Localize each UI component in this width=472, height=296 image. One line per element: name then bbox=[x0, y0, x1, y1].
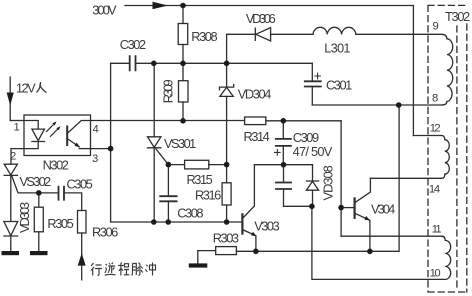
wire pin 2 lead bbox=[11, 149, 24, 165]
transformer core line bbox=[456, 26, 458, 290]
wire L301 to pin 9 bbox=[356, 33, 442, 35]
svg-text:8: 8 bbox=[432, 93, 438, 105]
svg-text:11: 11 bbox=[432, 224, 442, 236]
inductor L301 bbox=[313, 27, 356, 34]
ground VD303 bbox=[2, 251, 20, 255]
svg-text:VD306: VD306 bbox=[246, 11, 276, 26]
transformer T302 dashed box bbox=[428, 5, 467, 292]
optocoupler N302 box bbox=[24, 115, 91, 156]
node pin 8 wire junction bbox=[396, 102, 402, 108]
svg-text:14: 14 bbox=[429, 184, 440, 196]
resistor R309 bbox=[182, 63, 184, 80]
svg-text:3: 3 bbox=[92, 153, 98, 165]
svg-text:R314: R314 bbox=[244, 129, 270, 144]
capacitor C309 bbox=[282, 121, 284, 165]
svg-text:300V: 300V bbox=[92, 3, 117, 18]
winding pins 12-14 bbox=[442, 136, 450, 179]
svg-text:C302: C302 bbox=[120, 37, 146, 52]
svg-text:C308: C308 bbox=[177, 206, 203, 221]
node VS302 gate / R305 top bbox=[36, 190, 42, 196]
wire pin 3 row bbox=[91, 148, 111, 150]
svg-text:R303: R303 bbox=[213, 231, 239, 246]
node VD306 / VD304 branch bbox=[224, 61, 230, 67]
resistor R305 bbox=[38, 193, 40, 207]
phototransistor of N302 bbox=[66, 127, 68, 146]
wire pin 11 lead bbox=[341, 235, 442, 237]
node V303 emitter / R303 bbox=[253, 249, 259, 255]
LED light arrows bbox=[47, 124, 59, 137]
node R314 / C309 top bbox=[281, 118, 287, 124]
svg-text:R306: R306 bbox=[92, 225, 118, 240]
svg-text:10: 10 bbox=[430, 268, 441, 280]
svg-text:T302: T302 bbox=[445, 9, 470, 24]
capacitor C308 bbox=[167, 165, 169, 222]
transistor V303 bbox=[241, 214, 243, 233]
node R309 bottom on pin-4 wire bbox=[180, 118, 186, 124]
svg-text:9: 9 bbox=[433, 21, 439, 33]
wire pin 4 row bbox=[91, 120, 245, 122]
node R308 / R309 junction bbox=[180, 61, 186, 67]
node C302 / VS301 anode bbox=[151, 61, 157, 67]
svg-text:R316: R316 bbox=[195, 188, 221, 203]
resistor R315 bbox=[185, 160, 209, 169]
winding pins 9-8 bbox=[442, 34, 453, 105]
node 300V arrow bbox=[153, 2, 169, 10]
svg-text:4: 4 bbox=[93, 124, 99, 136]
ground R303 bbox=[197, 251, 199, 264]
diode VD306 bbox=[227, 28, 256, 40]
wire pin 12 lead bbox=[413, 135, 441, 137]
wire VD308 node to pin 10 bbox=[312, 206, 442, 279]
zener VD304 bbox=[226, 63, 228, 87]
wire 12V input arrow bbox=[9, 77, 11, 121]
thyristor VS302 bbox=[4, 164, 17, 175]
capacitor C302 bbox=[130, 56, 136, 70]
wire VD306 branch vertical bbox=[226, 34, 228, 63]
label 入 (CJK drawn) bbox=[37, 82, 47, 93]
svg-text:2: 2 bbox=[10, 151, 16, 163]
svg-text:L301: L301 bbox=[324, 41, 350, 56]
svg-text:C309: C309 bbox=[293, 130, 319, 145]
wire opto-C302 column bbox=[110, 63, 112, 222]
node VS301 gate / C308 top bbox=[166, 162, 172, 168]
wire pin 14 row bbox=[370, 177, 441, 179]
wire emitter row bbox=[256, 105, 399, 251]
svg-text:R315: R315 bbox=[187, 172, 213, 187]
svg-text:C305: C305 bbox=[67, 177, 93, 192]
svg-text:VD304: VD304 bbox=[238, 87, 272, 102]
node C308 bottom bbox=[165, 219, 171, 225]
svg-text:12V: 12V bbox=[16, 81, 36, 96]
resistor R316 bbox=[226, 165, 228, 183]
svg-text:R308: R308 bbox=[191, 29, 217, 44]
wire right-side vertical 300V to pin12 bbox=[412, 6, 414, 136]
capacitor C305 bbox=[59, 187, 65, 200]
node C309 bottom / V303 collector bbox=[281, 162, 287, 168]
wire C302 left segment bbox=[111, 62, 130, 64]
wire C302 to C301 corner bbox=[136, 62, 313, 64]
diode VD308 bbox=[306, 165, 318, 181]
wire V303 collector row bbox=[254, 164, 312, 166]
svg-text:1: 1 bbox=[14, 122, 20, 134]
capacitor below C309 bbox=[284, 165, 312, 207]
transistor V304 bbox=[354, 198, 356, 217]
node 300V rail / R308 top bbox=[180, 3, 186, 9]
svg-text:VS301: VS301 bbox=[164, 136, 196, 151]
node VD308 anode / pin 10 line bbox=[309, 204, 315, 210]
node R316 bottom bbox=[224, 219, 230, 225]
node VS301 cathode on bottom wire bbox=[151, 219, 157, 225]
node R315 / R316 / VD304 bbox=[224, 162, 230, 168]
node V304 emitter bbox=[367, 249, 373, 255]
resistor R314 bbox=[245, 117, 266, 125]
svg-text:R309: R309 bbox=[160, 79, 175, 103]
wire pin 8 row bbox=[312, 104, 441, 106]
svg-text:47/ 50V: 47/ 50V bbox=[293, 144, 333, 159]
svg-text:R305: R305 bbox=[47, 216, 73, 231]
wire 300V rail bbox=[125, 5, 413, 7]
wire gate node to R315 bbox=[168, 164, 184, 166]
label 行逆程脉冲 (CJK drawn) bbox=[91, 263, 156, 276]
wire bottom middle row bbox=[111, 221, 242, 223]
svg-text:C301: C301 bbox=[326, 78, 352, 93]
resistor R306 bbox=[78, 211, 87, 234]
node V304 base bbox=[338, 205, 344, 211]
wire V304 base column bbox=[340, 121, 342, 236]
node opto pin 3 junction bbox=[108, 146, 114, 152]
capacitor C301 bbox=[311, 63, 313, 105]
diode VD303 bbox=[4, 222, 18, 236]
svg-text:V304: V304 bbox=[371, 202, 395, 217]
svg-text:V303: V303 bbox=[254, 219, 279, 234]
ground R305 bbox=[30, 251, 48, 255]
svg-text:VD308: VD308 bbox=[320, 165, 335, 200]
resistor R308 bbox=[182, 6, 184, 24]
svg-text:VD303: VD303 bbox=[17, 202, 32, 233]
wire VD306 to L301 bbox=[271, 33, 313, 35]
svg-text:VS302: VS302 bbox=[20, 174, 51, 189]
resistor R303 bbox=[198, 250, 216, 252]
LED of N302 bbox=[24, 121, 38, 130]
winding pins 11-10 bbox=[442, 236, 451, 279]
svg-text:N302: N302 bbox=[43, 158, 69, 173]
svg-text:12: 12 bbox=[430, 123, 441, 135]
node flyback pulse arrow bbox=[78, 253, 86, 265]
thyristor VS301 bbox=[153, 63, 155, 137]
wire pin 1 lead bbox=[10, 120, 24, 122]
